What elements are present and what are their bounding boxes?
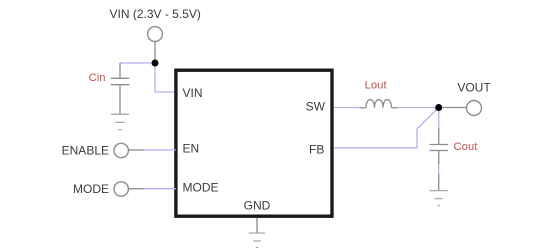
terminal ENABLE <box>114 143 128 157</box>
wire junction to Cin <box>120 62 155 64</box>
svg-text:Cin: Cin <box>89 72 106 84</box>
ground Cout <box>430 174 448 206</box>
wire Cout to ground <box>438 164 440 174</box>
capacitor Cout <box>430 128 448 164</box>
svg-text:VIN: VIN <box>183 86 203 100</box>
ground GND <box>249 233 265 248</box>
terminal VIN <box>148 27 163 42</box>
wire junction to VIN pin <box>155 63 176 92</box>
wire GND pin <box>256 218 258 233</box>
capacitor Cin <box>111 63 130 114</box>
wire MODE lead <box>128 188 143 190</box>
node VOUT junction <box>435 104 442 111</box>
wire MODE net <box>144 188 176 190</box>
wire VOUT lead <box>442 107 466 109</box>
svg-text:EN: EN <box>183 141 200 155</box>
svg-text:VIN (2.3V - 5.5V): VIN (2.3V - 5.5V) <box>110 7 201 21</box>
wire FB <box>334 108 439 148</box>
terminal VOUT <box>467 101 482 116</box>
wire SW to inductor <box>334 107 360 109</box>
wire EN net <box>144 149 176 151</box>
wire EN lead <box>128 149 143 151</box>
IC U1 <box>176 70 332 216</box>
svg-text:MODE: MODE <box>183 180 219 194</box>
terminal MODE <box>114 182 128 196</box>
svg-text:Cout: Cout <box>454 141 479 153</box>
inductor Lout <box>360 100 398 108</box>
svg-text:SW: SW <box>306 100 326 114</box>
svg-text:MODE: MODE <box>73 182 109 196</box>
svg-text:GND: GND <box>244 199 271 213</box>
svg-text:Lout: Lout <box>365 80 388 92</box>
wire inductor to junction <box>397 107 439 109</box>
wire VIN terminal to junction <box>154 41 156 61</box>
svg-text:VOUT: VOUT <box>457 80 491 94</box>
wire junction to Cout <box>438 108 440 129</box>
svg-text:FB: FB <box>309 143 324 157</box>
node VIN junction <box>152 60 159 67</box>
svg-text:ENABLE: ENABLE <box>62 144 109 158</box>
ground Cin <box>111 114 129 129</box>
